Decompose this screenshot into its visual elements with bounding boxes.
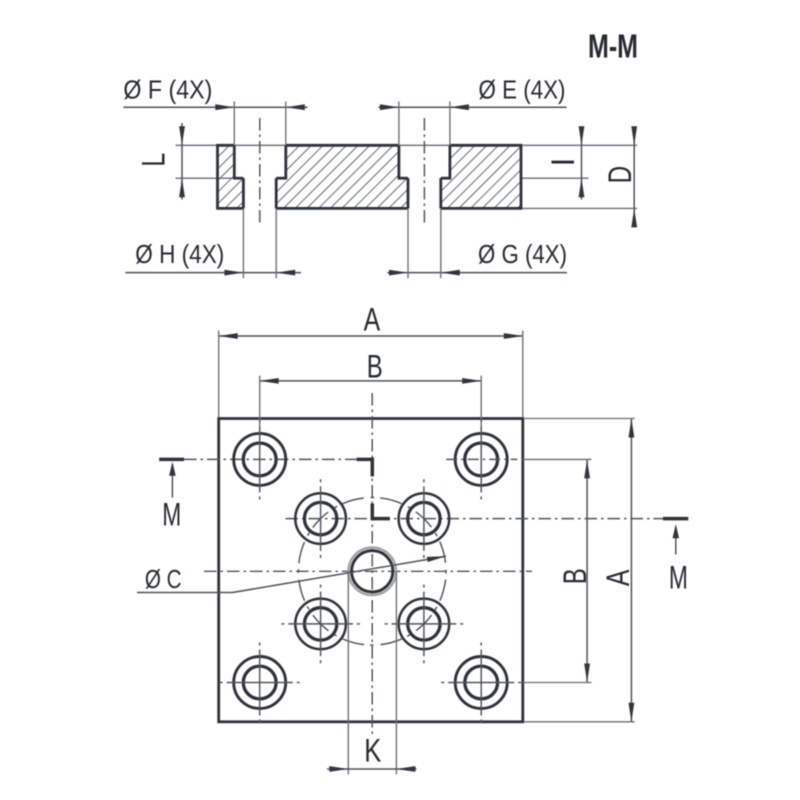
- extension line plate bottom right (D): [521, 207, 637, 209]
- right counterbored hole profile (E/G): [398, 145, 452, 208]
- counterbored hole E4 (lower-right): [399, 599, 450, 650]
- svg-text:M: M: [669, 560, 688, 596]
- ext lines F: [233, 102, 235, 146]
- svg-text:A: A: [364, 301, 381, 337]
- counterbored hole H4 (bottom-right): [455, 657, 507, 709]
- centerline right hole (section): [423, 118, 425, 226]
- svg-text:D: D: [602, 166, 638, 184]
- section line end bar left: [159, 458, 184, 462]
- svg-text:Ø E (4X): Ø E (4X): [479, 74, 566, 104]
- left counterbored hole profile (F/H): [233, 145, 287, 208]
- section line jog (thick): [357, 458, 374, 462]
- extension line counterbore depth right (I): [521, 177, 589, 179]
- svg-text:Ø H (4X): Ø H (4X): [135, 239, 224, 269]
- svg-text:I: I: [545, 158, 581, 167]
- ext lines A top: [218, 331, 220, 417]
- plate outline section: [216, 145, 522, 208]
- counterbored hole E2 (upper-right): [399, 493, 450, 544]
- counterbored hole H3 (bottom-left): [234, 657, 286, 709]
- svg-text:L: L: [135, 153, 171, 167]
- hatched cross-section of plate: [218, 145, 522, 208]
- central hole chamfer ring (gray): [348, 548, 396, 596]
- counterbored hole H1 (top-left): [234, 433, 286, 485]
- svg-text:A: A: [600, 569, 636, 586]
- central hole C: [352, 551, 393, 592]
- section cutting line right portion (through middle holes): [286, 518, 664, 520]
- svg-text:K: K: [364, 732, 381, 768]
- plan view plate outline: [219, 419, 523, 722]
- extension line across plate top (L / I / D): [176, 144, 638, 146]
- horizontal centerline through central hole: [204, 570, 532, 572]
- ext lines H: [242, 208, 244, 278]
- ext lines A right: [525, 418, 635, 420]
- svg-text:B: B: [367, 348, 383, 384]
- bolt circle Ø C (dash-dot): [298, 498, 446, 646]
- svg-text:Ø F (4X): Ø F (4X): [123, 74, 212, 104]
- counterbored hole E3 (lower-left): [295, 599, 346, 650]
- svg-text:Ø C: Ø C: [145, 564, 182, 594]
- vertical centerline of plate: [371, 393, 373, 737]
- ext lines K (from central hole): [347, 571, 349, 774]
- extension line counterbore depth left (L): [176, 177, 235, 179]
- svg-text:Ø G (4X): Ø G (4X): [478, 239, 567, 269]
- centerline through top-right hole: [446, 458, 517, 460]
- ext lines B top: [259, 376, 261, 434]
- svg-text:M-M: M-M: [588, 28, 638, 65]
- counterbored hole E1 (upper-left): [295, 493, 346, 544]
- section line end bar right: [663, 517, 688, 521]
- ext lines B right: [523, 458, 592, 460]
- section arrow left: [171, 464, 173, 498]
- svg-text:M: M: [162, 497, 181, 533]
- centerline left hole (section): [259, 118, 261, 226]
- ext lines E: [398, 102, 400, 146]
- counterbored hole H2 (top-right): [455, 433, 507, 485]
- section arrow right: [675, 527, 677, 555]
- ext lines G: [407, 208, 409, 278]
- section cutting line left portion (through top corner holes): [184, 458, 357, 460]
